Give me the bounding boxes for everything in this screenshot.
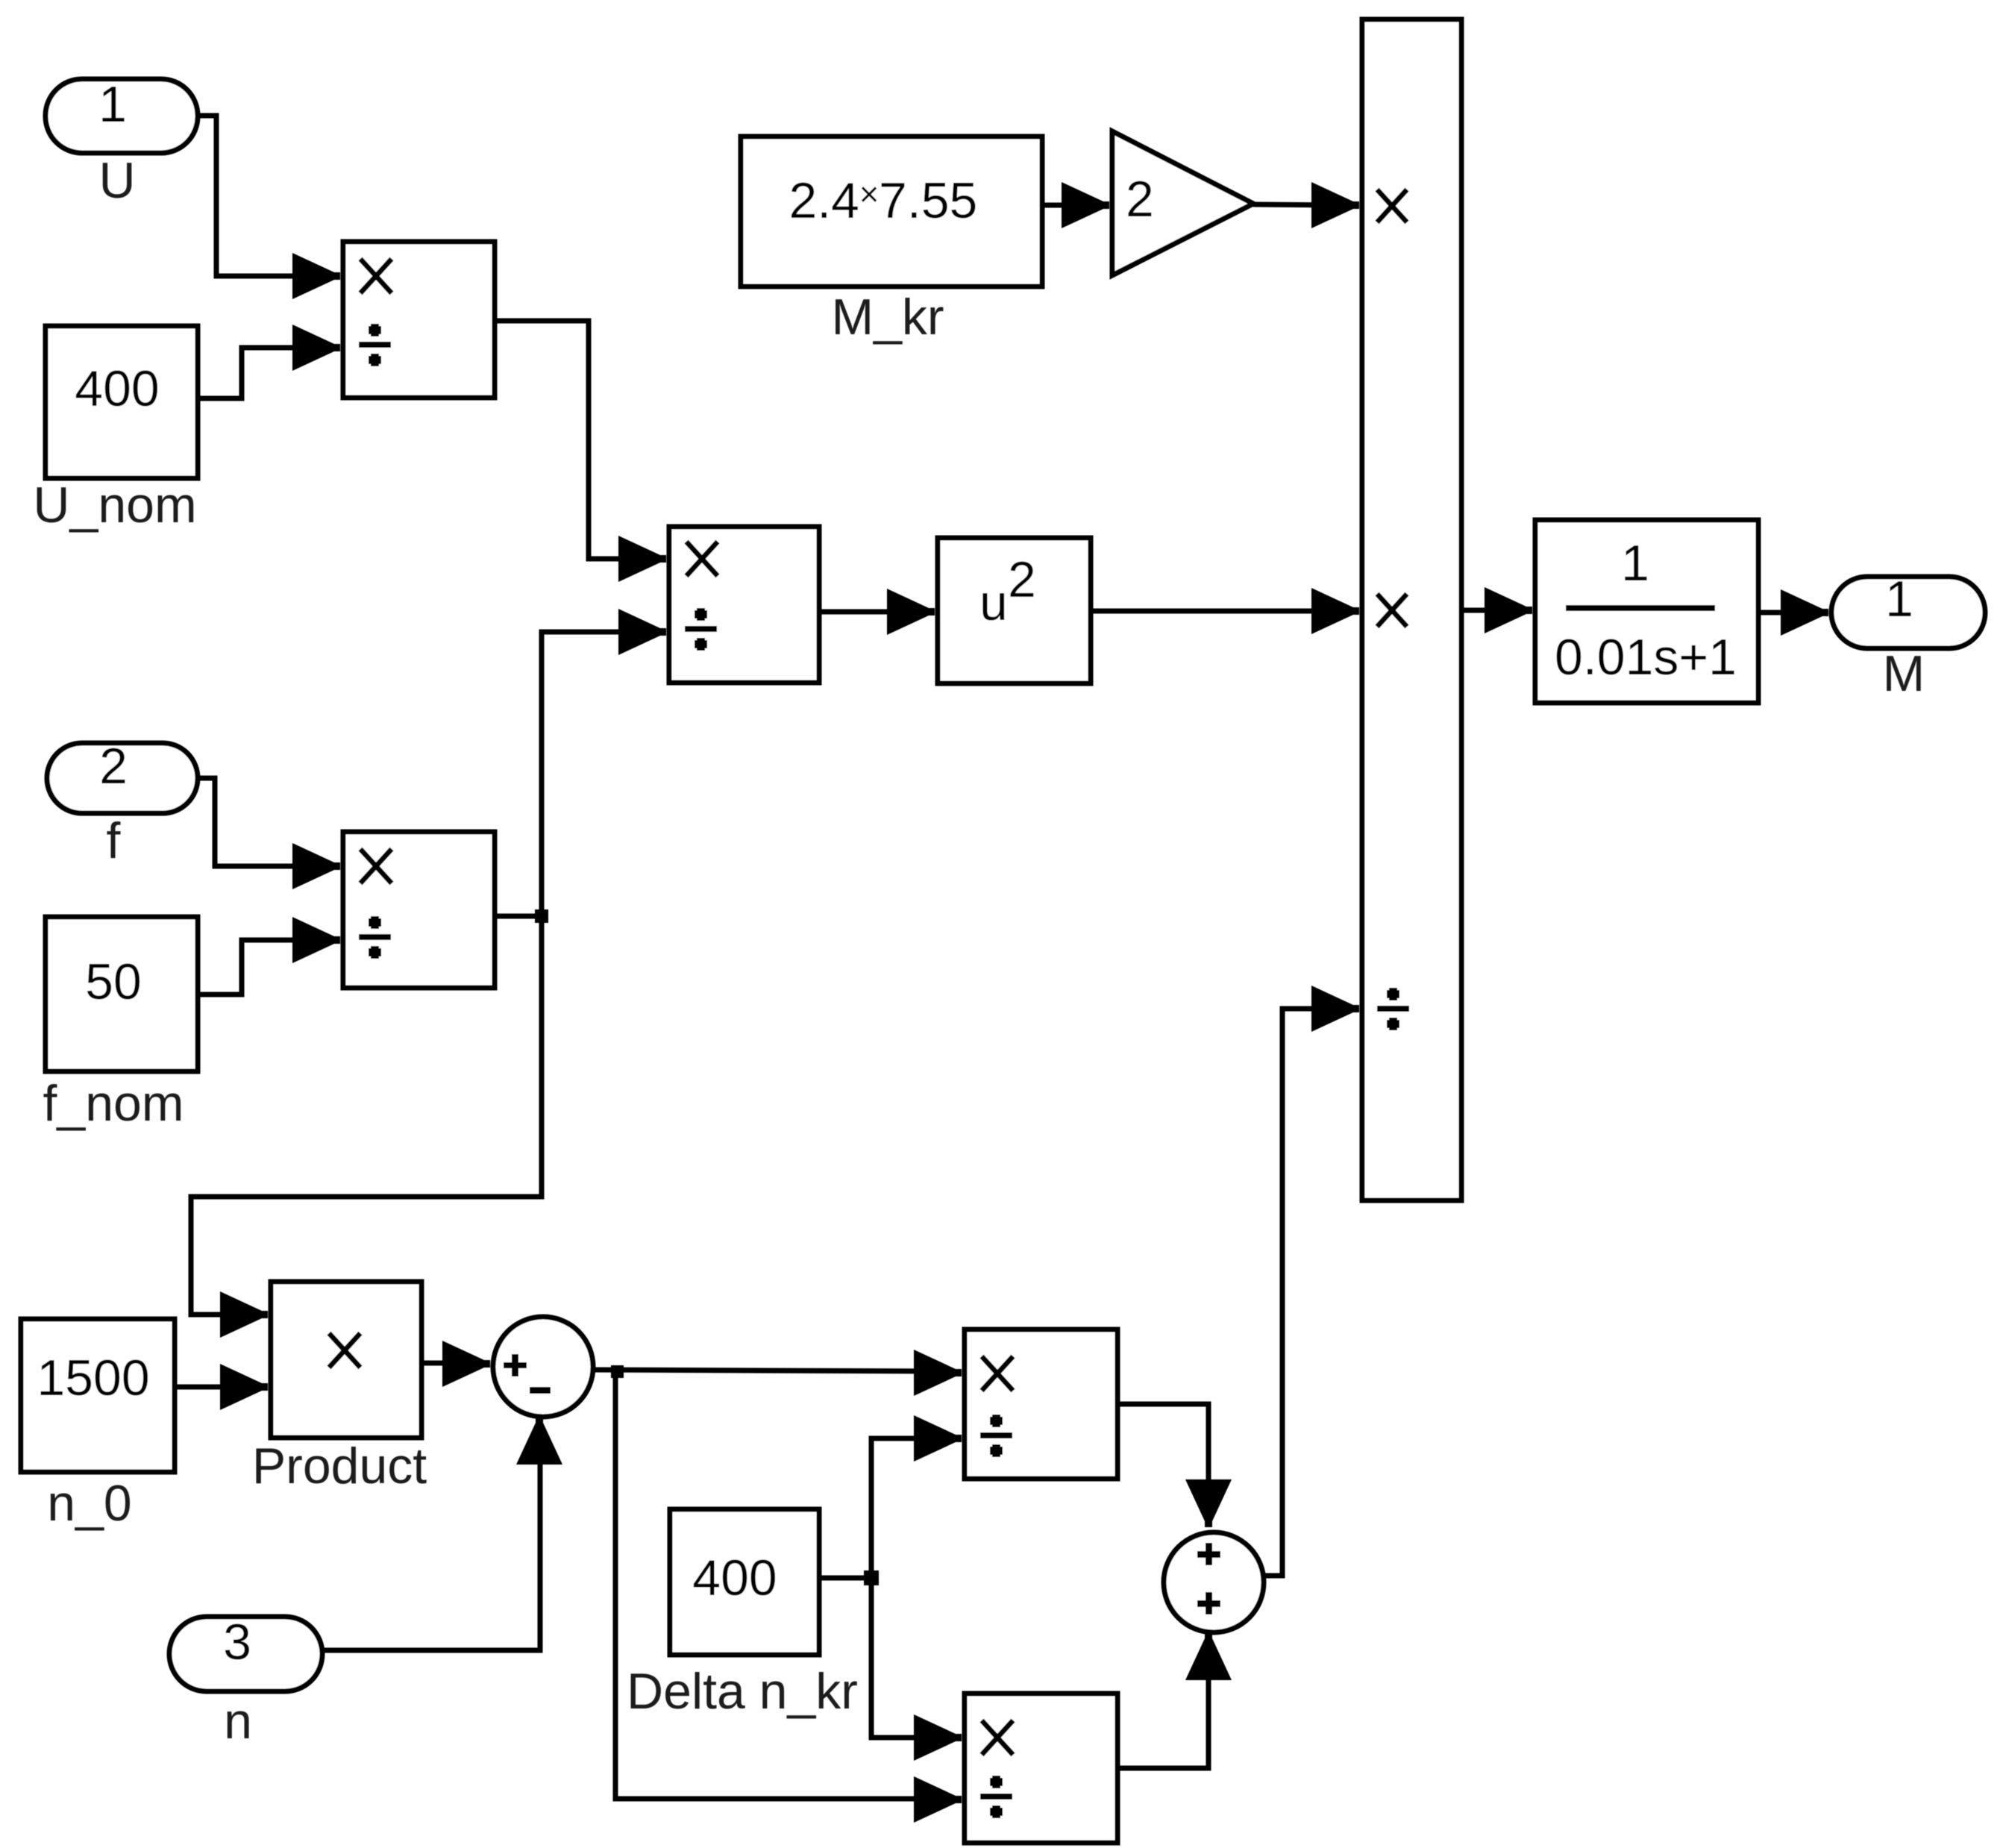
- product block (Product): [271, 1282, 421, 1438]
- wire Gain out to Product3 in1: [1253, 182, 1359, 228]
- sum Sum2 (++): [1164, 1532, 1264, 1632]
- transfer function 1/(0.01s+1): [1535, 520, 1758, 703]
- wire node C down to Divide5 in1: [871, 1578, 962, 1761]
- wire Divide2 out to u^2: [819, 589, 935, 635]
- svg-text:Product: Product: [252, 1438, 427, 1494]
- svg-text:50: 50: [85, 953, 142, 1010]
- wire Product out to Sum1: [421, 1341, 490, 1387]
- wire node A up to Divide2 in2: [542, 609, 666, 916]
- wire f_nom to Divide3 in2: [198, 917, 340, 995]
- wire f to Divide3 in1: [198, 778, 340, 889]
- divide f/f_nom (Divide3): [343, 832, 495, 988]
- node A junction (f ratio net): [535, 909, 548, 923]
- svg-text:M_kr: M_kr: [831, 289, 944, 345]
- svg-text:3: 3: [223, 1614, 251, 1670]
- svg-text:U: U: [98, 152, 135, 209]
- svg-text:1: 1: [1885, 571, 1913, 627]
- svg-text:1: 1: [98, 76, 127, 133]
- svg-text:2.4: 2.4: [789, 172, 859, 229]
- wire Divide4 out to Sum2 top: [1117, 1404, 1232, 1527]
- svg-text:1: 1: [1621, 535, 1649, 592]
- wire node C up to Divide4 in2: [871, 1415, 962, 1578]
- svg-text:2: 2: [1008, 551, 1036, 608]
- divide (U/U_nom)/(f/f_nom) (Divide2): [669, 527, 819, 683]
- constant M_kr 2.4*7.55: [741, 137, 1042, 286]
- svg-text:400: 400: [75, 360, 159, 417]
- wire node A down to Product in1: [191, 916, 542, 1338]
- wire U_nom to Divide1 in2: [198, 325, 340, 398]
- inport 3 "n": [169, 1614, 322, 1691]
- svg-text:f_nom: f_nom: [43, 1075, 184, 1132]
- gain 2 triangle: [1112, 131, 1253, 275]
- product of 3 inputs (Product3 tall block): [1362, 19, 1461, 1200]
- constant n_0 1500: [21, 1319, 175, 1472]
- wire n to Sum1 minus input: [322, 1417, 562, 1650]
- sum Sum1 (+-): [493, 1317, 593, 1417]
- wire Sum1 out to Divide4 in1: [593, 1350, 962, 1396]
- wire node B down to Divide5 in2: [615, 1371, 962, 1823]
- wire U to Divide1 in1: [198, 116, 340, 299]
- svg-text:U_nom: U_nom: [33, 477, 196, 533]
- svg-text:0.01s+1: 0.01s+1: [1555, 629, 1737, 686]
- svg-text:1500: 1500: [37, 1350, 149, 1406]
- node B junction (slip net): [611, 1365, 624, 1378]
- inport 1 "U": [46, 76, 198, 153]
- constant f_nom 50: [46, 917, 198, 1071]
- node C junction (Delta n_kr net): [864, 1570, 879, 1585]
- svg-text:400: 400: [692, 1550, 777, 1606]
- svg-text:n: n: [224, 1693, 252, 1750]
- svg-text:2: 2: [99, 738, 128, 795]
- svg-text:n_0: n_0: [47, 1475, 131, 1532]
- wire Divide1 out to Divide2 in1: [495, 321, 666, 582]
- svg-text:Delta n_kr: Delta n_kr: [627, 1663, 858, 1720]
- svg-text:u: u: [979, 574, 1008, 631]
- svg-text:f: f: [107, 812, 121, 869]
- math function u^2 block: [938, 538, 1091, 683]
- svg-text:M: M: [1883, 645, 1925, 702]
- wire Transfer Fcn out to outport M: [1758, 589, 1828, 636]
- wire Sum2 out to Product3 divide input: [1264, 986, 1359, 1576]
- svg-text:2: 2: [1126, 171, 1154, 228]
- wire n_0 to Product in2: [175, 1364, 268, 1410]
- svg-text:7.55: 7.55: [879, 172, 977, 229]
- wire Delta n_kr out to node C: [819, 1576, 871, 1581]
- divide U/U_nom (Divide1): [343, 242, 495, 398]
- inport 2 "f": [47, 738, 198, 813]
- outport 1 "M": [1831, 571, 1985, 648]
- wire Divide5 out to Sum2 bottom: [1117, 1632, 1232, 1768]
- wire Product3 out to Transfer Fcn: [1461, 587, 1532, 633]
- wire u^2 out to Product3 in2: [1091, 588, 1359, 634]
- constant Delta n_kr 400: [670, 1509, 819, 1655]
- constant U_nom 400: [46, 326, 198, 478]
- divide Dnkr/slip (Divide5): [965, 1694, 1117, 1843]
- svg-text:×: ×: [859, 175, 880, 213]
- divide slip/Dnkr (Divide4): [965, 1329, 1117, 1479]
- wire M_kr to Gain: [1042, 182, 1109, 228]
- wire Divide3 out to node A: [495, 914, 542, 919]
